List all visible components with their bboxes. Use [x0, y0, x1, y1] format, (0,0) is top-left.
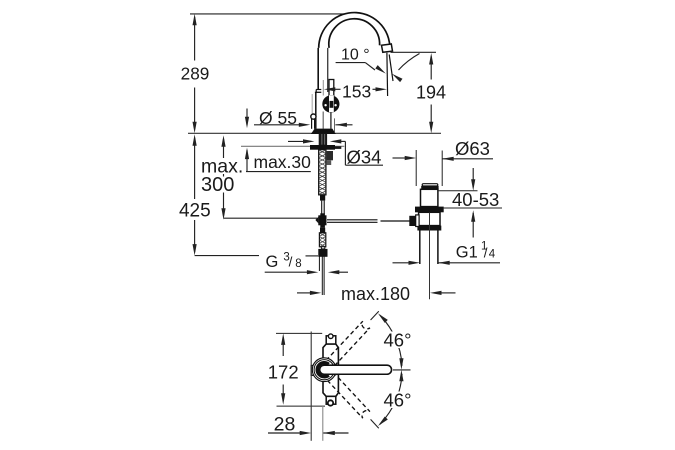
svg-text:289: 289 — [181, 64, 210, 84]
svg-text:max.180: max.180 — [341, 284, 410, 304]
svg-text:172: 172 — [268, 361, 299, 382]
svg-text:/: / — [289, 255, 293, 270]
svg-text:8: 8 — [295, 258, 301, 270]
svg-text:194: 194 — [416, 83, 446, 103]
svg-text:300: 300 — [201, 174, 234, 196]
svg-text:153: 153 — [342, 81, 371, 101]
svg-text:4: 4 — [489, 249, 496, 261]
svg-text:46°: 46° — [384, 329, 412, 350]
svg-text:max.30: max.30 — [254, 152, 312, 172]
svg-text:/: / — [484, 246, 488, 261]
svg-text:28: 28 — [274, 414, 296, 436]
svg-text:Ø63: Ø63 — [455, 138, 490, 159]
svg-text:46°: 46° — [384, 390, 412, 411]
svg-text:Ø34: Ø34 — [347, 146, 382, 167]
svg-text:425: 425 — [179, 201, 211, 222]
svg-text:G1: G1 — [456, 244, 478, 262]
svg-text:40-53: 40-53 — [452, 189, 499, 210]
svg-text:G: G — [266, 253, 279, 271]
svg-text:10 °: 10 ° — [341, 46, 370, 63]
